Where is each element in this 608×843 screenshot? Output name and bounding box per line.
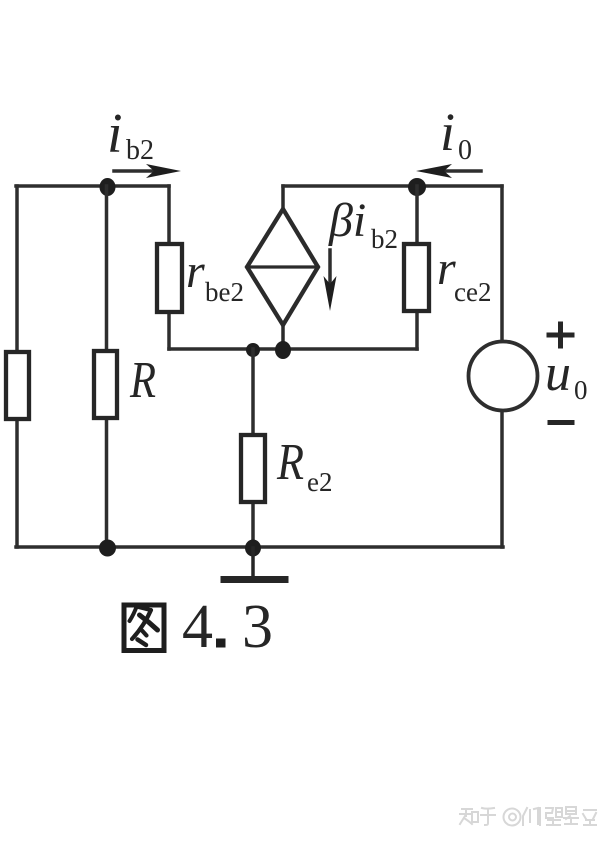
hu [481, 808, 495, 825]
arrow i_b2 [114, 164, 181, 178]
svg-text:3: 3 [242, 593, 273, 661]
yang [523, 808, 540, 825]
zhi [460, 809, 478, 824]
wire r_ce2 branch [415, 186, 419, 349]
resistor R [94, 351, 117, 418]
resistor left unlabeled [6, 352, 29, 419]
wire R branch [105, 186, 109, 547]
resistor R_e2 [241, 435, 265, 502]
xing [564, 807, 578, 824]
svg-text:0: 0 [458, 135, 472, 166]
wire right branch to source [500, 186, 504, 547]
label R_e2 [276, 434, 332, 497]
wire R_e2 branch [251, 349, 255, 547]
ground [224, 548, 285, 580]
svg-text:R: R [129, 352, 156, 409]
current label i_0 [440, 102, 472, 166]
wire r_be2 branch [167, 186, 171, 349]
svg-text:4: 4 [182, 593, 213, 661]
svg-text:b2: b2 [371, 224, 398, 254]
label r_ce2 [437, 242, 491, 307]
wang [546, 808, 562, 825]
kong [583, 810, 596, 825]
svg-text:r: r [186, 245, 205, 298]
wire emitter mid rail [169, 347, 417, 351]
dependent current source diamond [247, 186, 318, 349]
node dot bottom R branch [99, 540, 116, 557]
voltage source u_0 circle [469, 342, 538, 411]
node B junction dot [100, 178, 116, 196]
watermark zhihu [460, 807, 596, 826]
wire collector top rail [283, 184, 502, 188]
at [504, 809, 521, 826]
svg-text:βi: βi [328, 194, 366, 247]
svg-text:i: i [107, 103, 123, 165]
svg-text:R: R [276, 434, 304, 491]
current label i_b2 [107, 103, 154, 166]
wire left outer branch [15, 186, 19, 547]
svg-text:u: u [545, 345, 571, 402]
node dot emitter rail left [246, 343, 260, 357]
svg-text:b2: b2 [126, 135, 154, 166]
node C junction dot [408, 178, 426, 196]
wire bottom rail [16, 545, 503, 549]
svg-text:0: 0 [574, 375, 588, 405]
resistor r_ce2 [404, 244, 429, 311]
arrow i_0 [416, 164, 481, 178]
label r_be2 [186, 245, 244, 307]
label beta i_b2 [328, 194, 398, 254]
node dot emitter rail diamond [275, 341, 291, 359]
svg-text:i: i [440, 102, 455, 162]
figure caption 图 4.3 [124, 593, 273, 661]
wire top-left base rail [16, 184, 169, 188]
svg-text:e2: e2 [307, 467, 332, 497]
label R [129, 352, 156, 409]
node dot bottom ground [245, 540, 261, 557]
label u_0 with polarity [545, 324, 588, 423]
arrow beta i_b2 [324, 250, 337, 311]
svg-text:be2: be2 [205, 277, 244, 307]
resistor r_be2 [157, 244, 182, 312]
svg-text:ce2: ce2 [454, 277, 491, 307]
